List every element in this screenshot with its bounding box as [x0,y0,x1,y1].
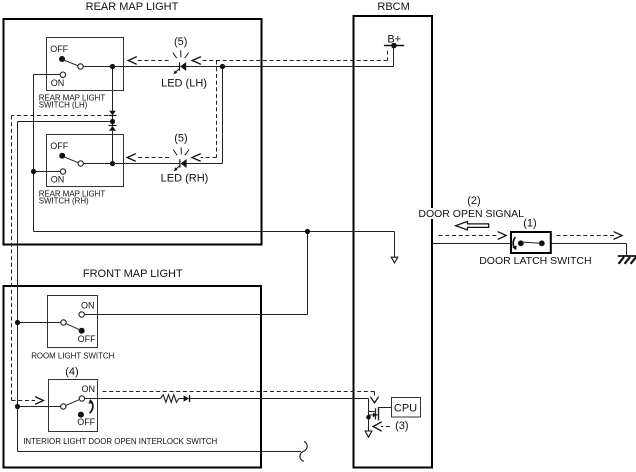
svg-text:B+: B+ [387,33,401,45]
svg-text:ROOM LIGHT SWITCH: ROOM LIGHT SWITCH [31,352,114,361]
svg-text:SWITCH (LH): SWITCH (LH) [39,100,88,109]
svg-text:CPU: CPU [394,402,417,414]
svg-text:SWITCH (RH): SWITCH (RH) [39,197,89,206]
svg-text:FRONT MAP LIGHT: FRONT MAP LIGHT [83,268,183,280]
svg-text:ON: ON [81,384,95,394]
svg-text:DOOR LATCH SWITCH: DOOR LATCH SWITCH [479,255,591,267]
svg-text:(2): (2) [467,195,480,207]
svg-text:(5): (5) [174,133,187,145]
svg-text:LED (LH): LED (LH) [161,78,207,90]
svg-text:RBCM: RBCM [377,1,409,13]
svg-text:(1): (1) [523,218,536,230]
svg-text:ON: ON [51,174,65,184]
svg-text:(3): (3) [395,420,408,432]
svg-text:OFF: OFF [77,417,95,427]
svg-text:OFF: OFF [78,334,96,344]
svg-text:INTERIOR LIGHT DOOR OPEN INTER: INTERIOR LIGHT DOOR OPEN INTERLOCK SWITC… [23,437,217,446]
svg-text:REAR MAP LIGHT: REAR MAP LIGHT [86,1,179,13]
svg-text:(5): (5) [174,36,187,48]
svg-text:ON: ON [51,78,65,88]
svg-text:OFF: OFF [50,44,68,54]
svg-text:ON: ON [81,301,95,311]
svg-text:LED (RH): LED (RH) [161,173,209,185]
svg-text:OFF: OFF [50,141,68,151]
svg-text:(4): (4) [65,366,78,378]
svg-text:DOOR OPEN SIGNAL: DOOR OPEN SIGNAL [418,208,524,220]
